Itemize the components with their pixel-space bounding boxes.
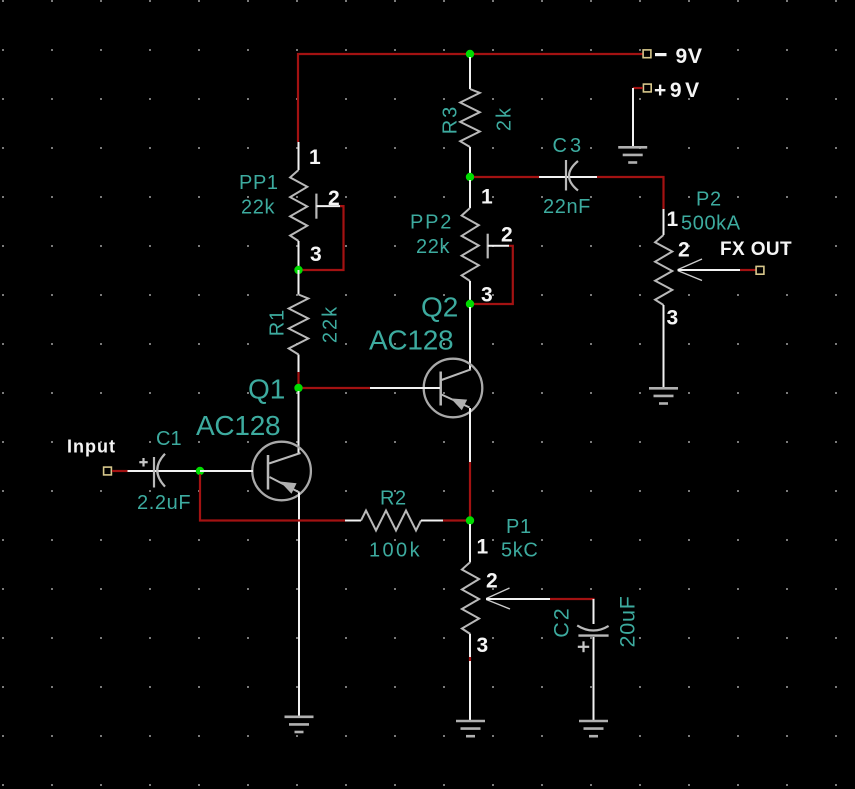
svg-text:P2: P2 [696, 189, 722, 211]
label 20uF [616, 595, 640, 647]
svg-text:20uF: 20uF [616, 595, 640, 647]
P2 pin 3 [667, 307, 679, 330]
svg-text:Input: Input [67, 437, 116, 457]
wire C2 top lead [593, 599, 595, 624]
label PP1 [239, 172, 279, 194]
P2 pin 1 [667, 208, 679, 231]
label 22k [416, 236, 450, 258]
P1 wiper [486, 588, 550, 609]
wire Q2 emitter to node [469, 462, 471, 521]
svg-text:2: 2 [328, 187, 340, 210]
label 5kC [501, 540, 538, 562]
label C3 [553, 135, 585, 157]
svg-text:C1: C1 [156, 428, 182, 450]
label 22k R1 [320, 305, 342, 343]
svg-text:1: 1 [309, 146, 321, 169]
label R1 [267, 309, 289, 337]
transistor Q2 [424, 359, 483, 418]
svg-text:22k: 22k [241, 197, 275, 219]
label PP2 [410, 212, 453, 234]
ground [649, 388, 678, 403]
label AC128 Q1 [196, 410, 280, 441]
label 22nF [543, 196, 591, 218]
wire -9V rail [298, 54, 643, 142]
resistor R2 [345, 511, 443, 531]
label C2 [550, 606, 574, 637]
svg-text:22nF: 22nF [543, 196, 591, 218]
wire junction to C3 [474, 176, 539, 178]
potentiometer P2 [655, 209, 672, 388]
capacitor C3 [566, 160, 578, 191]
svg-text:R1: R1 [267, 309, 289, 337]
node R3 bottom [466, 173, 474, 181]
wire Q2 base red [302, 387, 370, 389]
wire P1 wiper to C2 [550, 598, 595, 600]
P1 pin 2 [486, 570, 498, 593]
PP2 pin 3 [481, 284, 493, 307]
svg-text:PP1: PP1 [239, 172, 279, 194]
label Q1 [248, 374, 285, 405]
svg-text:R3: R3 [440, 105, 462, 135]
svg-text:3: 3 [477, 634, 489, 657]
resistor R1 [289, 270, 309, 372]
wire Q2 emitter [469, 408, 471, 462]
P2 wiper [678, 259, 741, 281]
svg-text:500kA: 500kA [681, 213, 741, 235]
label P1 [506, 516, 532, 538]
label 500kA [681, 213, 741, 235]
svg-text:+9V: +9V [654, 79, 703, 102]
wire through C1 [128, 470, 201, 472]
ground [285, 717, 314, 732]
wire P2 wiper to FX OUT [740, 269, 756, 271]
svg-text:22k: 22k [416, 236, 450, 258]
capacitor C2 [577, 625, 608, 652]
capacitor C1 [139, 454, 165, 488]
wire C2 bottom [593, 637, 595, 720]
wire through C3 [539, 176, 597, 178]
power terminal +9V [633, 79, 703, 102]
label P2 [696, 189, 722, 211]
P1 pin 1 [477, 536, 489, 559]
P2 pin 2 [678, 239, 690, 262]
power terminal -9V [643, 45, 703, 68]
wire +9V to ground [632, 88, 634, 147]
wire Input red [112, 470, 128, 472]
node PP2 pin3 [466, 300, 474, 308]
transistor Q1 [252, 442, 311, 501]
PP2 pin 1 [481, 186, 493, 209]
PP1 pin 2 [328, 187, 340, 210]
svg-text:Q2: Q2 [421, 292, 458, 323]
wire PP1 wiper to pin3 [302, 206, 344, 270]
ground [456, 721, 485, 736]
label Q2 [421, 292, 458, 323]
label 100k [369, 540, 422, 562]
wire PP2 wiper to pin3 [474, 246, 513, 304]
wire PP2 to Q2 collector [469, 307, 471, 370]
port Input [67, 437, 116, 475]
svg-text:AC128: AC128 [196, 410, 280, 441]
svg-text:3: 3 [310, 243, 322, 266]
svg-text:C3: C3 [553, 135, 585, 157]
svg-text:C2: C2 [550, 606, 574, 637]
svg-text:2: 2 [678, 239, 690, 262]
svg-text:3: 3 [667, 307, 679, 330]
wire R1 to node red [297, 372, 299, 385]
label 2k [494, 106, 516, 131]
svg-text:2: 2 [501, 224, 513, 247]
node C1 out [196, 467, 204, 475]
label C1 [156, 428, 182, 450]
trimmer PP2 [462, 180, 509, 304]
PP2 pin 2 [501, 224, 513, 247]
svg-text:100k: 100k [369, 540, 422, 562]
label AC128 Q2 [369, 325, 453, 356]
label R2 [380, 488, 407, 510]
svg-text:2: 2 [486, 570, 498, 593]
P1 pin 3 [477, 634, 489, 657]
node R2 P1 [466, 516, 474, 524]
svg-text:9V: 9V [676, 45, 703, 68]
svg-text:2k: 2k [494, 106, 516, 131]
svg-text:Q1: Q1 [248, 374, 285, 405]
node Q1 collector [294, 384, 302, 392]
svg-text:FX OUT: FX OUT [720, 239, 792, 260]
node PP1 pin3 [294, 266, 302, 274]
ground [618, 147, 647, 162]
svg-text:22k: 22k [320, 305, 342, 343]
label 2.2uF [137, 492, 191, 514]
resistor R3 [460, 57, 480, 174]
svg-text:PP2: PP2 [410, 212, 453, 234]
svg-text:5kC: 5kC [501, 540, 538, 562]
node rail junction [466, 50, 474, 58]
port FX OUT [720, 239, 792, 274]
wire C3 to P2 [597, 177, 664, 209]
wire node to Q1 collector [298, 391, 300, 453]
svg-text:1: 1 [667, 208, 679, 231]
svg-text:2.2uF: 2.2uF [137, 492, 191, 514]
wire node down to R2 [200, 474, 345, 521]
wire Q2 base white [370, 387, 440, 389]
wire R2 to node [443, 519, 468, 521]
svg-text:P1: P1 [506, 516, 532, 538]
svg-text:1: 1 [477, 536, 489, 559]
trimmer PP1 [290, 142, 340, 270]
svg-text:R2: R2 [380, 488, 407, 510]
wire Q1 emitter [298, 493, 300, 717]
svg-text:AC128: AC128 [369, 325, 453, 356]
PP1 pin 3 [310, 243, 322, 266]
ground [579, 721, 608, 736]
potentiometer P1 [462, 524, 479, 720]
wire node to Q1 base [200, 470, 253, 472]
label R3 [440, 105, 462, 135]
PP1 pin 1 [309, 146, 321, 169]
label 22k PP1 [241, 197, 275, 219]
svg-text:1: 1 [481, 186, 493, 209]
